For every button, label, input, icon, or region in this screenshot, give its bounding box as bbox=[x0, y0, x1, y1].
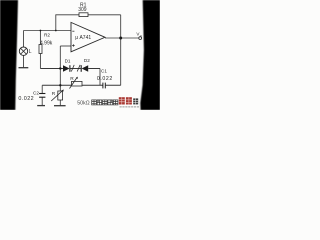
output terminal Vo circle bbox=[139, 37, 142, 40]
wire R2 branch upper bbox=[39, 31, 41, 45]
wire noninverting vertical bbox=[59, 46, 61, 91]
svg-text:D1: D1 bbox=[65, 59, 71, 64]
wire lamp branch bbox=[23, 31, 25, 48]
wire opamp output bbox=[105, 37, 139, 39]
svg-text:L: L bbox=[29, 49, 32, 55]
svg-text:μ A741: μ A741 bbox=[75, 35, 91, 41]
ground bar under lower pot bbox=[54, 105, 66, 107]
wire bottom rail bbox=[42, 84, 121, 86]
wire R2 bottom to diode rail bbox=[39, 54, 41, 69]
svg-text:o: o bbox=[140, 34, 142, 38]
capacitor C1 plates bbox=[103, 83, 105, 89]
node junction dots bbox=[40, 30, 123, 87]
svg-text:R: R bbox=[70, 76, 74, 82]
wire lower pot to ground bbox=[59, 100, 61, 106]
watermark red glyphs bbox=[119, 97, 132, 104]
diode D2 bbox=[81, 65, 88, 72]
wire noninverting input bbox=[60, 45, 71, 47]
svg-text:0.022: 0.022 bbox=[97, 76, 113, 82]
wire diode rail right segment bbox=[70, 68, 100, 70]
capacitor C2 plates bbox=[39, 94, 45, 98]
wire inverting input rail bbox=[24, 30, 72, 32]
svg-text:D2: D2 bbox=[84, 58, 90, 63]
wire C2 branch bbox=[41, 85, 43, 93]
watermark tiny url row bbox=[120, 106, 140, 108]
wire diode rail corner down to bottom rail bbox=[99, 69, 101, 86]
slash marks between diodes bbox=[71, 65, 80, 72]
potentiometer R lower box bbox=[51, 90, 64, 102]
ground bar under lamp bbox=[19, 67, 29, 69]
wire feedback rail top bbox=[56, 15, 121, 31]
lamp L circle bbox=[19, 47, 27, 55]
resistor R2 box bbox=[39, 45, 42, 54]
svg-text:C1: C1 bbox=[101, 69, 107, 74]
ground bar under C2 bbox=[37, 105, 45, 107]
right black bar bbox=[140, 0, 160, 110]
wire lamp to ground bbox=[23, 55, 25, 67]
left black bar bbox=[0, 0, 18, 110]
watermark dark glyph bbox=[133, 98, 138, 104]
svg-text:309: 309 bbox=[78, 7, 87, 13]
svg-text:4.99k: 4.99k bbox=[40, 41, 53, 47]
svg-text:50k: 50k bbox=[77, 101, 86, 107]
svg-text:R: R bbox=[52, 91, 56, 97]
svg-text:0.022: 0.022 bbox=[18, 96, 34, 102]
wire C2 to ground bbox=[41, 97, 43, 105]
wire right vertical from feedback to output node and down to bottom rail bbox=[120, 15, 122, 86]
resistor R1 box bbox=[79, 13, 88, 17]
caption CJK glyph blocks bbox=[92, 100, 118, 105]
label R1 bbox=[18, 2, 141, 102]
diode D1 bbox=[63, 65, 70, 72]
svg-text:Ω: Ω bbox=[86, 101, 90, 107]
wire diode rail bbox=[40, 68, 63, 70]
potentiometer R upper box bbox=[70, 77, 83, 89]
svg-text:R2: R2 bbox=[44, 32, 50, 37]
op-amp U1 triangle bbox=[71, 22, 105, 51]
caption 50k ohm coaxial potentiometer bbox=[77, 101, 90, 107]
svg-text:C2: C2 bbox=[33, 90, 39, 95]
